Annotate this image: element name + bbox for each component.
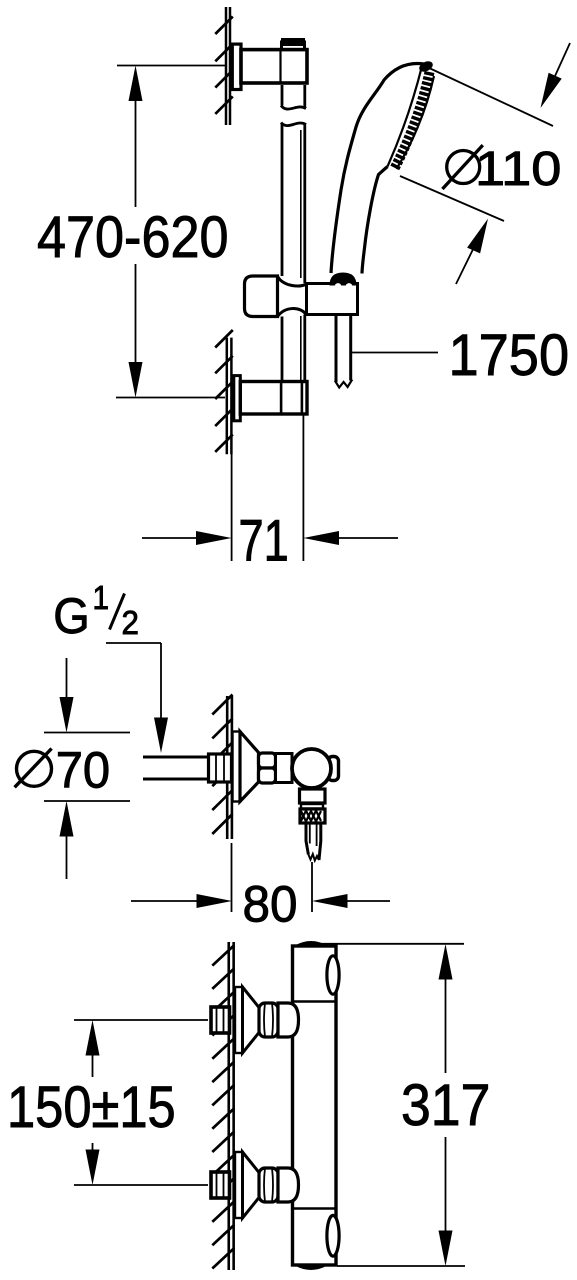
holder glide left cap bbox=[245, 276, 278, 317]
escutcheon plate bbox=[235, 1152, 243, 1218]
svg-text:70: 70 bbox=[56, 742, 110, 799]
svg-text:71: 71 bbox=[239, 509, 289, 574]
shower face band right edge bbox=[397, 76, 435, 169]
bottom bracket flange bbox=[234, 376, 241, 421]
escutcheon plate bbox=[235, 987, 243, 1053]
escutcheon cone bbox=[243, 1152, 260, 1218]
top bracket body bbox=[241, 50, 307, 83]
top connection (bottom section) bbox=[211, 987, 299, 1053]
svg-text:470-620: 470-620 bbox=[37, 204, 229, 269]
dim Ø110 text bbox=[447, 151, 480, 184]
dim Ø110 arrow lower bbox=[456, 249, 473, 284]
svg-text:110: 110 bbox=[475, 142, 561, 195]
dim Ø110 arrow upper bbox=[555, 43, 571, 77]
dim 71 bbox=[142, 415, 398, 561]
svg-text:G: G bbox=[53, 588, 90, 644]
holder rail waist curves bbox=[278, 277, 307, 317]
hex nut (middle) bbox=[209, 754, 232, 782]
svg-text:1: 1 bbox=[93, 580, 110, 617]
escutcheon cone bbox=[243, 987, 260, 1053]
wall (bottom) bbox=[229, 942, 234, 1270]
rail through bottom bracket bbox=[282, 315, 305, 382]
escutcheon cone (middle) bbox=[240, 732, 259, 802]
top bracket flange bbox=[232, 44, 241, 89]
wall (middle) bbox=[227, 696, 232, 839]
shower hose (top section) bbox=[336, 315, 351, 383]
wall upper (top section) bbox=[226, 7, 230, 125]
svg-text:317: 317 bbox=[401, 1072, 490, 1137]
wall lower (top section) bbox=[227, 338, 232, 455]
hose tail (middle) bbox=[306, 823, 321, 860]
body bottom cap bbox=[295, 1265, 328, 1270]
thermostat body bbox=[293, 946, 337, 1265]
svg-text:2: 2 bbox=[122, 604, 139, 641]
union nut bbox=[259, 1003, 278, 1037]
hex nut bbox=[211, 1007, 230, 1033]
ball cap right bbox=[328, 757, 339, 781]
leader 1750 bbox=[352, 352, 438, 354]
holder right body bbox=[307, 284, 358, 315]
body top cap bbox=[295, 942, 328, 947]
knurled ring bbox=[259, 753, 276, 768]
barrel bbox=[276, 754, 293, 783]
shower rail upper segment bbox=[281, 85, 306, 109]
ball joint bbox=[292, 749, 331, 788]
top bracket button bbox=[282, 42, 305, 50]
shower head apex bbox=[418, 59, 435, 74]
shower rail break and lower segment bbox=[281, 123, 306, 284]
hand shower handle end cap bbox=[330, 273, 357, 286]
svg-text:1750: 1750 bbox=[449, 322, 570, 387]
handle ellipse bottom bbox=[327, 1215, 339, 1256]
supply pipe bbox=[143, 757, 227, 779]
G 1/2 leader bbox=[106, 643, 161, 719]
shower face spray band bbox=[395, 72, 430, 169]
connector dome bbox=[278, 1003, 299, 1037]
escutcheon plate (middle) bbox=[233, 732, 241, 802]
dim 470-620 bbox=[116, 66, 226, 398]
svg-text:150±15: 150±15 bbox=[7, 1075, 176, 1140]
shower face inner line bbox=[388, 66, 423, 167]
outlet block bbox=[300, 789, 326, 803]
dim Ø70 bbox=[44, 658, 130, 879]
union nut bbox=[259, 1168, 278, 1202]
dim Ø110 extension lines bbox=[400, 67, 553, 221]
dim 150±15 bbox=[74, 1020, 208, 1185]
hex nut bbox=[211, 1172, 230, 1198]
knurled hose nut bbox=[300, 809, 325, 823]
dim 317 bbox=[304, 944, 465, 1266]
hand shower head outline bbox=[331, 64, 424, 274]
dim 80 bbox=[131, 843, 390, 912]
svg-text:80: 80 bbox=[243, 876, 298, 933]
bottom bracket body bbox=[240, 382, 307, 415]
bottom connection (bottom section) bbox=[211, 1152, 299, 1218]
ring under outlet bbox=[301, 804, 323, 809]
handle ellipse top bbox=[327, 956, 339, 994]
connector dome bbox=[278, 1168, 299, 1202]
